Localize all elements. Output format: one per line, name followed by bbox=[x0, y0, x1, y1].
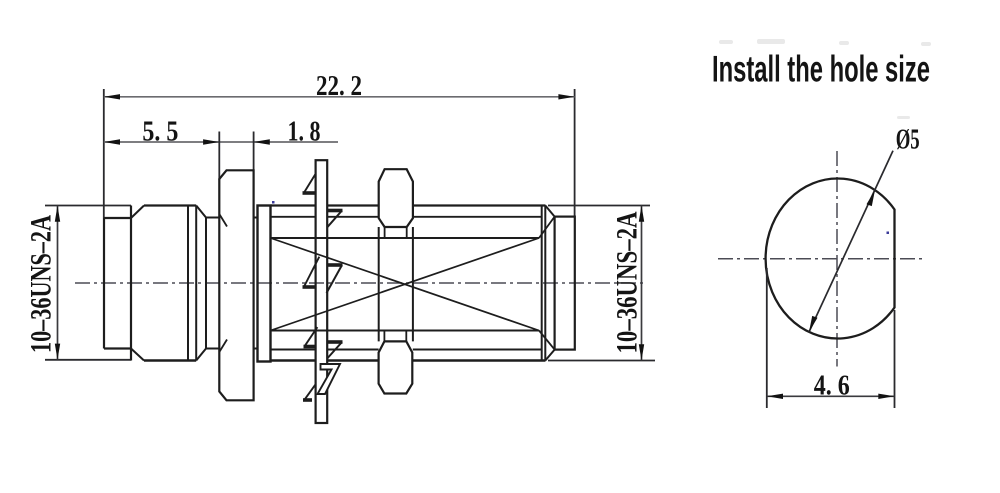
hex nut N2 top octagon bbox=[379, 169, 413, 227]
shaft lines nut to washer bbox=[254, 217, 258, 219]
barrel bottom outer line bbox=[144, 359, 196, 361]
dim 4.6 arrow right bbox=[878, 394, 894, 399]
centerline main view bbox=[75, 282, 645, 284]
flat washer W1 bbox=[258, 206, 271, 362]
hole view vertical centerline bbox=[836, 151, 838, 367]
left thread dim line bbox=[57, 206, 59, 360]
bore chamfer top bbox=[539, 217, 555, 238]
serration mark 1 left bbox=[304, 174, 316, 193]
bore chamfer bottom bbox=[539, 331, 555, 350]
svg-text:4. 6: 4. 6 bbox=[814, 371, 850, 402]
nut N2 inner short verticals bbox=[384, 227, 386, 238]
nut N2 side verticals bbox=[378, 227, 380, 341]
shaft top line to nut bbox=[206, 217, 219, 219]
dim 5.5 arrow right bbox=[203, 139, 219, 144]
right cap rectangle bbox=[555, 217, 575, 350]
serration mark 4 white outlined 7 bbox=[318, 364, 341, 394]
left thread dim arrow down bbox=[55, 344, 60, 360]
svg-text:1. 8: 1. 8 bbox=[288, 116, 321, 147]
dim 4.6 extension left bbox=[766, 268, 768, 408]
svg-text:10–36UNS–2A: 10–36UNS–2A bbox=[25, 215, 58, 353]
left thread dim arrow up bbox=[55, 206, 60, 222]
leader arrow lower bbox=[809, 316, 818, 332]
serration mark 3 left bbox=[305, 327, 317, 345]
body inner top line segs bbox=[271, 216, 316, 218]
barrel chamfer bottom-left bbox=[131, 349, 144, 361]
right end chamfer bottom bbox=[545, 350, 554, 361]
body inner bottom line segs bbox=[271, 349, 316, 351]
body outer top line (washer to lock washer) bbox=[271, 204, 316, 206]
right end chamfer top bbox=[545, 206, 554, 217]
serration mark 4 left bbox=[305, 385, 316, 400]
thread runout line bbox=[187, 206, 189, 361]
barrel top outer line bbox=[144, 204, 196, 206]
right thread dim extension bottom bbox=[548, 360, 655, 362]
connector left face bbox=[103, 218, 105, 349]
left thread dim extension top bbox=[45, 205, 131, 207]
left cap top bbox=[104, 217, 131, 219]
blue speck right view bbox=[887, 232, 890, 235]
dim 22.2 extension line left bbox=[103, 89, 105, 218]
barrel chamfer top-left bbox=[131, 206, 144, 219]
serration mark 2 left bbox=[304, 257, 319, 287]
dim 22.2 arrow left bbox=[104, 94, 120, 99]
right end face line A bbox=[541, 206, 543, 361]
right thread dim extension top bbox=[548, 205, 650, 207]
X diagonal 1 bbox=[271, 238, 540, 331]
dim 22.2 line bbox=[104, 96, 575, 98]
right thread dim arrow up bbox=[639, 206, 644, 222]
barrel left edge bbox=[130, 206, 132, 361]
blue speck left view bbox=[272, 201, 275, 204]
dim 4.6 extension right bbox=[894, 310, 896, 408]
hole view horizontal centerline bbox=[718, 258, 926, 260]
hex nut N1 outline bbox=[219, 170, 253, 400]
body outer top line (nut2 to right end) bbox=[413, 204, 546, 206]
left cap bottom bbox=[104, 347, 131, 349]
hole outline circle with flat bbox=[766, 178, 895, 338]
left thread dim extension bottom bbox=[45, 359, 131, 361]
serration mark 3 right bbox=[327, 340, 342, 344]
svg-text:10–36UNS–2A: 10–36UNS–2A bbox=[611, 211, 644, 353]
right thread dim line bbox=[641, 206, 643, 361]
barrel chamfer bottom-right bbox=[196, 349, 206, 361]
dim 4.6 line bbox=[767, 395, 895, 397]
dim 5.5 arrow left bbox=[104, 139, 120, 144]
svg-text:Ø5: Ø5 bbox=[896, 124, 920, 155]
bore top line bbox=[271, 237, 540, 239]
nut N1 chamfer arc mark top bbox=[219, 214, 227, 227]
dim 4.6 arrow left bbox=[767, 394, 783, 399]
dim 22.2 extension line right bbox=[574, 89, 576, 217]
dim 1.8 extension line bbox=[253, 132, 255, 172]
X diagonal 2 bbox=[271, 238, 540, 331]
barrel right edge bbox=[195, 206, 197, 361]
dim 5.5 extension line bbox=[218, 132, 220, 181]
barrel minor dia right edge bbox=[205, 218, 207, 349]
leader arrow upper bbox=[867, 190, 876, 206]
bore bottom line bbox=[271, 330, 540, 332]
nut N1 chamfer arc mark bottom bbox=[219, 340, 227, 353]
hex nut N2 bottom octagon bbox=[379, 341, 413, 393]
right end face line B bbox=[544, 206, 546, 361]
serration mark 1 right bbox=[327, 209, 342, 213]
dim 5.5 / 1.8 line bbox=[104, 141, 338, 143]
dim 22.2 arrow right bbox=[558, 94, 574, 99]
svg-text:Install the hole size: Install the hole size bbox=[712, 49, 930, 90]
serration mark 2 right bbox=[327, 263, 342, 267]
faint artifacts top bbox=[719, 39, 931, 119]
barrel chamfer top-right bbox=[196, 206, 206, 218]
right thread dim arrow down bbox=[639, 344, 644, 360]
body outer top line (lock washer to nut2) bbox=[327, 204, 378, 206]
body outer bottom line (washer to lock washer) bbox=[271, 359, 316, 361]
lock washer strip bbox=[316, 160, 328, 423]
shaft bottom line to nut bbox=[206, 348, 219, 350]
body outer bottom line (lock washer to nut2) bbox=[327, 359, 378, 361]
svg-text:5. 5: 5. 5 bbox=[142, 116, 178, 147]
diameter leader line bbox=[809, 151, 893, 332]
dim 1.8 outside arrow bbox=[254, 139, 270, 144]
body outer bottom line (nut2 to right end) bbox=[413, 359, 546, 361]
svg-text:22. 2: 22. 2 bbox=[316, 71, 362, 102]
